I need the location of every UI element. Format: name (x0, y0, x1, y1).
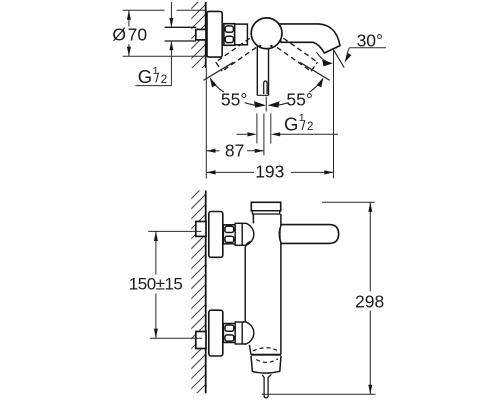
upper union nut (223, 225, 235, 244)
svg-text:150±15: 150±15 (129, 275, 183, 294)
svg-text:30°: 30° (357, 30, 383, 50)
298 dimension (262, 202, 384, 394)
lower union nut (223, 324, 235, 343)
87 dimension (206, 141, 264, 161)
svg-text:Ø: Ø (112, 25, 126, 45)
lower flange (209, 310, 223, 356)
outlet housing (251, 356, 281, 373)
separator thick line (251, 354, 281, 356)
150±15 dimension (129, 231, 202, 338)
concealed fitting in wall (top view) (196, 29, 206, 40)
svg-text:193: 193 (255, 162, 284, 182)
wall (hatched, upper view) (191, 2, 205, 68)
handle lever (front view, pill) (280, 225, 339, 244)
cap ring (252, 211, 279, 214)
Ø70 dimension (112, 10, 206, 56)
lower body left edge (249, 345, 251, 355)
svg-text:G: G (138, 66, 152, 87)
outlet spout tube (262, 374, 271, 398)
lower S-union: concealed fitting (196, 332, 206, 349)
upper boss dome (242, 223, 254, 245)
spout tip extension line (333, 50, 335, 179)
body fill (covers lever left part) (254, 214, 280, 355)
union nut (top view) (224, 24, 235, 46)
svg-text:87: 87 (225, 141, 244, 161)
dashed lever position right (55°) (216, 38, 256, 71)
svg-text:55°: 55° (221, 89, 247, 109)
spout (279, 24, 341, 53)
escutcheon flange (top view) (207, 11, 222, 57)
body back edge between bosses (245, 241, 251, 327)
G1/2 pipe dimension (top left) (135, 2, 173, 87)
dashed lever position left (55°) (277, 38, 317, 71)
hidden inner edge (dashed) in housing (256, 359, 278, 363)
upper S-union: concealed fitting (196, 222, 206, 237)
union cylinder (top view) (235, 24, 248, 45)
lower boss (235, 322, 242, 344)
upper boss (235, 223, 242, 245)
svg-text:298: 298 (355, 291, 384, 311)
top cap (251, 202, 280, 211)
wall (hatched, lower view) (191, 191, 205, 394)
30° annotation (317, 30, 387, 67)
193 dimension (206, 162, 333, 182)
handle lever (top view, vertical) (257, 44, 268, 96)
body outline (253, 214, 281, 355)
upper flange (209, 212, 223, 258)
55° direction line right (300, 62, 330, 80)
55° arc right (268, 78, 324, 108)
55° direction line left (204, 62, 234, 80)
lower boss dome (242, 322, 254, 344)
svg-text:2: 2 (161, 74, 167, 86)
55° arc left (210, 78, 266, 108)
G1/2 outlet dimension (top view, below lever) (237, 97, 339, 156)
svg-text:2: 2 (307, 121, 313, 133)
svg-text:/: / (302, 117, 306, 133)
pivot dots on ball (259, 45, 261, 47)
svg-text:70: 70 (128, 25, 148, 45)
inlet pipe (top view) (165, 27, 197, 41)
hidden dome (dashed) above separator (253, 348, 279, 351)
svg-text:55°: 55° (286, 89, 312, 109)
svg-text:/: / (155, 70, 159, 86)
wall face extension line (below wall, top view) (205, 68, 207, 179)
svg-text:G: G (284, 113, 298, 134)
cartridge ball (top view) (251, 18, 282, 49)
